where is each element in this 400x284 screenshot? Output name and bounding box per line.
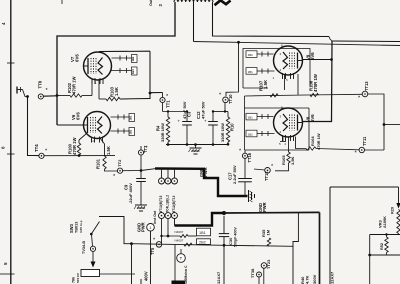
wire from bus drop1 [293,213,298,284]
svg-text:1.5K: 1.5K [106,146,111,155]
wire TT10 drop [226,42,239,96]
wire TT10 tie [224,103,226,112]
wire V8 lead pinA [257,116,274,118]
wire TT13 to corner [368,94,384,150]
socket box V9 [243,49,310,89]
svg-text:R10: R10 [229,123,234,131]
svg-text:N4007: N4007 [175,230,184,234]
svg-text:R105: R105 [281,155,286,165]
svg-text:2.2uF 50V: 2.2uF 50V [232,165,237,184]
wire TT4 line [44,155,115,157]
junction cathode bus [149,92,152,95]
wire TT34 down [92,251,94,261]
wire box2 to TT6 [244,150,246,153]
svg-text:PWR: PWR [203,167,208,177]
wire branch to right edge [384,124,400,126]
wire T1 end-1 to left plate bus [57,2,175,125]
wire TT5 line [132,244,225,246]
junction TT7 line [140,169,143,172]
wire corner down [369,235,371,256]
resistor R103 [98,79,100,99]
connector pin P1 top [159,178,165,184]
svg-text:470R 1W: 470R 1W [316,133,321,150]
connector pin P3 top [172,178,178,184]
heavy ground bus [155,169,248,197]
arrow VR3 wiper [396,203,400,209]
svg-text:TT13: TT13 [364,81,369,91]
svg-text:Inst Out: Inst Out [153,210,157,224]
svg-text:TT2: TT2 [117,159,122,167]
svg-text:TV34-B: TV34-B [82,241,86,254]
wire V7 cathode top lead [99,50,150,52]
svg-text:1B2: 1B2 [248,132,254,136]
terminal box 2B2 [197,239,211,245]
sheet border line [10,0,12,284]
wire SW3 top [99,217,132,244]
wire bus line B to right [194,42,400,46]
tube V6 [84,112,111,139]
big rect top [330,186,399,188]
rectifier row 2 [184,243,192,246]
svg-text:400Mohm C: 400Mohm C [184,265,188,284]
junction jack node [26,95,29,98]
svg-text:A100K: A100K [383,216,387,228]
junction right plate bus to V9 [330,58,333,61]
wire T1 end-2 down [213,2,330,37]
svg-text:VR3: VR3 [377,219,382,228]
wire cathode bus [149,51,151,99]
wire big rect left edge [329,187,331,284]
pin box 1B1 V8 [246,113,257,120]
connector pin P3 bottom [172,213,178,219]
tube V7 [84,52,112,80]
svg-text:R104: R104 [310,136,315,146]
svg-text:TT1: TT1 [165,100,170,108]
terminal box 1B1 [197,228,211,236]
wire V7 lead pin7 [112,70,132,72]
wire TT1 to tie [162,103,164,112]
svg-text:6V6: 6V6 [310,114,315,122]
junction on plate bus [56,94,59,97]
pin box 1B1 [132,67,138,75]
svg-text:TT4: TT4 [34,144,39,152]
test point TT6 [242,153,247,158]
wire V9 lead pinA [257,53,274,55]
resistor R101 [100,138,105,156]
wire TT2 right [123,170,141,172]
wire C17 to ground [244,182,246,196]
pin box 1B2 V6 [129,114,135,122]
offpage arrow down [91,262,96,268]
svg-text:1: 1 [95,81,97,85]
wire pin drop row1 [167,219,169,236]
svg-text:C30: C30 [228,237,233,245]
svg-text:1M: 1M [266,229,271,235]
connector pin P2 bottom [165,213,171,219]
wire VR3 top [398,187,400,203]
wire tie bar [163,111,188,113]
wire V7 lead pin2 [112,57,132,59]
svg-text:1B1: 1B1 [199,231,206,235]
svg-text:TT8: TT8 [38,80,43,88]
svg-text:TT16: TT16 [247,152,252,162]
border tick [7,153,15,155]
test point TT38 [257,272,262,277]
junction R35 line [223,244,226,247]
black component block [172,281,186,284]
test point TT23 [261,263,267,269]
wire jog [329,37,332,42]
svg-text:SW3: SW3 [69,223,74,233]
svg-text:1.5K: 1.5K [263,79,268,89]
wire TT11 to corner [365,149,385,151]
resistor R100 [79,134,87,141]
test point TT5 [156,242,162,248]
svg-text:1B1: 1B1 [131,69,135,74]
resistor R10 [227,112,229,118]
svg-text:TT23: TT23 [266,259,271,269]
stub bottom edge [140,279,142,284]
resistor R102 [57,95,70,97]
connector pin P1 bottom [159,213,165,219]
test point TT7 [140,146,142,150]
capacitor C17 [238,178,252,180]
wire lower right line [370,254,400,256]
connector circled 1 [147,224,155,232]
annotation large 2 [215,0,231,5]
tube V9 [274,46,303,75]
wire thin bus to corner [224,211,320,214]
junction line B TT10 [237,41,240,44]
svg-text:12AX7: 12AX7 [329,271,334,284]
test point TT1 [162,93,164,98]
wire tie bar 2 [213,111,228,113]
svg-text:1B2: 1B2 [131,56,135,61]
pin box 1B2 V9 [246,51,257,58]
svg-text:N4007: N4007 [175,239,184,243]
junction B+ branch [383,123,386,126]
svg-text:330R 10W: 330R 10W [220,123,225,142]
svg-text:4.7K: 4.7K [304,275,309,284]
svg-text:1B2: 1B2 [248,53,254,57]
tube V8 [274,108,303,137]
ground mid GND PWR [195,145,197,149]
resistor R35 [267,238,270,246]
svg-text:8T13(B)T15: 8T13(B)T15 [159,195,163,212]
svg-text:470R 1W: 470R 1W [71,76,76,94]
svg-text:1B1: 1B1 [248,70,254,74]
top edge stub [61,0,63,4]
connector pin P2 top [165,178,171,184]
svg-text:TT38: TT38 [250,268,255,278]
svg-text:8T12(B)T13: 8T12(B)T13 [172,195,176,212]
wire V6 lead pin7 [111,130,130,132]
resistor R106 [310,93,319,96]
wire bus corner down [319,212,321,284]
svg-text:47uF 50V: 47uF 50V [201,101,206,119]
svg-text:1.5K: 1.5K [290,156,295,165]
svg-text:TT11: TT11 [362,136,367,146]
pin box 1B2 [132,55,138,63]
output transformer T1 winding [174,0,213,2]
wire V9 lead pinB [257,70,275,72]
svg-text:500pF 400V: 500pF 400V [233,227,237,247]
junction SW3 node [130,242,133,245]
wire SW3 to TT34 [92,234,93,246]
svg-text:7C4L1(B)L2: 7C4L1(B)L2 [166,195,170,213]
test point TT10 [223,97,229,103]
wire to TT1 [150,92,163,94]
svg-text:1.5K: 1.5K [114,87,119,96]
wire line A to right edge [332,40,400,43]
ground C9 GND PWR [135,204,147,206]
svg-text:6V6: 6V6 [74,54,79,62]
pin box 1B2 V8 [246,130,257,137]
meter circle T [180,249,182,254]
connector block [81,270,100,277]
svg-text:TT12: TT12 [264,171,269,181]
svg-text:470R 1W: 470R 1W [72,137,77,155]
svg-text:300V: 300V [312,274,317,284]
wire TT8 to grid bus [43,95,56,97]
svg-text:Out: Out [149,0,153,6]
junction lower right [368,254,371,257]
svg-text:12AX7: 12AX7 [216,271,221,284]
resistor R104 [296,137,307,149]
rectifier row 1 [162,235,181,237]
potentiometer VR3 [397,210,400,234]
resistor R4 [167,112,169,118]
heater stub V8 [282,137,284,142]
svg-text:6V6: 6V6 [310,52,315,60]
svg-text:50S 6V: 50S 6V [76,273,80,283]
svg-text:6V6: 6V6 [75,112,80,120]
pin box 1B1 V6 [129,128,135,136]
wire 400V drop [131,244,133,284]
wire V9 plate lead [303,59,332,61]
test point TT2 [117,168,122,173]
svg-text:PWR: PWR [141,222,146,232]
svg-text:TT5: TT5 [150,247,155,255]
wire V6 plate lead [57,124,84,126]
svg-text:470R 1W: 470R 1W [313,73,318,92]
wire drop to block [174,245,176,281]
svg-text:330R 10W: 330R 10W [160,123,165,142]
wire bottom tie bar [166,144,228,146]
test point TT12 [265,168,271,174]
resistor R105 [288,137,290,152]
capacitor C12 [212,112,214,122]
pin box 1B1 V9 [246,68,257,75]
wire TT12 stub [254,169,265,170]
test point TT11 [359,147,364,152]
junction heavy node [222,211,226,215]
wire jack to junction [23,90,28,97]
svg-text:3.6V to p: 3.6V to p [79,220,83,233]
svg-text:1B2: 1B2 [129,115,133,120]
resistor R107 [270,94,278,97]
wire V8 plate lead [303,121,332,123]
heavy bus lower [174,219,176,226]
wire connector block right [100,273,136,275]
svg-text:T: T [180,256,183,261]
test point TT8 [38,94,43,99]
test point TT4 [39,153,44,158]
wire pin drop row2 [161,219,163,244]
svg-text:TT10: TT10 [228,94,233,104]
resistor R52 [385,237,388,253]
svg-text:R101: R101 [95,158,100,169]
capacitor C30 [223,216,225,234]
svg-text:PWR: PWR [262,202,267,212]
connector J [16,87,18,94]
wire right plate bus [303,41,332,122]
wire Inst Out down [150,231,152,284]
svg-text:400V: 400V [143,271,148,281]
border tick [0,273,15,275]
socket box V8 [244,96,246,150]
wire T1 center tap down [193,2,195,42]
test point TT13 [362,91,368,97]
svg-text:2B2: 2B2 [199,241,206,245]
svg-text:1B1: 1B1 [248,116,254,120]
wire C9 to ground [140,182,142,206]
capacitor C9 [136,178,146,180]
wire pot bottom line [370,234,400,236]
wire V8 lead pinB [257,133,275,135]
switch SW3 lever [91,222,99,235]
svg-text:R52: R52 [380,243,384,250]
svg-text:C3: C3 [187,111,192,117]
heavy bus wire [141,169,155,171]
wire V6 lead pin2 [111,116,130,118]
svg-text:.22uF 400V: .22uF 400V [128,183,133,204]
svg-text:TB013: TB013 [74,222,78,233]
wire drops from heavy bus [161,169,163,178]
wire screen bus [245,94,363,96]
capacitor C3 [186,112,188,122]
wire lower right drop [369,255,371,284]
border tick [7,62,15,64]
svg-text:R29: R29 [390,207,394,214]
wire down to TT4 [28,97,40,156]
svg-text:1B1: 1B1 [129,129,133,134]
test point TT34 [90,246,95,251]
wire R35 line [224,245,294,246]
ground C17 PWR [248,190,250,202]
